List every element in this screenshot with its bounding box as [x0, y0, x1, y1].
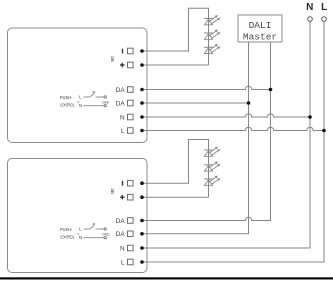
wire box1 SEC+ from LED string 1: [142, 64, 209, 66]
switch S1 push-button contact: [90, 94, 94, 97]
label box2 SEC- (minus, rotated): [122, 181, 124, 186]
switch S2 L lead wire: [84, 228, 90, 230]
junction dot box1 L / L trunk: [322, 129, 326, 133]
junction dot box1 L: [140, 129, 144, 133]
svg-text:N: N: [79, 235, 82, 240]
svg-text:N: N: [120, 114, 125, 121]
switch S2 DALI lead wire: [96, 228, 104, 230]
wire box1 DA1 to DALI bus B (hop over bus A): [142, 86, 271, 89]
switch S1 N terminal circle: [104, 105, 106, 107]
junction dot box1 N / N trunk: [308, 115, 312, 119]
wire N trunk (mains neutral bus): [142, 21, 310, 248]
svg-text:PUSH-: PUSH-: [60, 227, 73, 232]
svg-text:DA: DA: [116, 100, 126, 107]
svg-text:DA: DA: [116, 231, 126, 238]
terminal square box1 SEC-: [128, 48, 134, 54]
terminal square box1 N: [128, 114, 134, 120]
switch S2 push-button contact: [90, 226, 94, 229]
wire box2 SEC+ from LED string 2: [142, 196, 209, 198]
DALI master U1 (box): [238, 15, 282, 42]
switch S2 N lead wire: [84, 237, 104, 239]
junction dot box1 SEC-: [140, 49, 144, 53]
LED D1: [204, 18, 213, 20]
svg-text:L: L: [121, 128, 125, 135]
terminal square box2 SEC-: [128, 180, 134, 186]
switch S1 DALI terminal circle: [104, 96, 106, 98]
svg-text:SEC: SEC: [109, 188, 114, 194]
wire L trunk (mains line bus): [142, 21, 324, 262]
junction dot box1 DA2: [140, 101, 144, 105]
wire LED string 1 spine: [208, 19, 210, 66]
footer rule (page separator): [0, 277, 333, 279]
switch S1 N lead wire: [84, 105, 104, 107]
wire box1 DA2 to DALI bus A: [142, 102, 249, 104]
svg-text:L: L: [321, 2, 327, 13]
svg-text:N: N: [120, 245, 125, 252]
svg-text:DALI: DALI: [249, 20, 272, 31]
terminal square box2 N: [128, 245, 134, 251]
wire LED string 2 spine: [208, 150, 210, 197]
driver box 1 (enclosure): [8, 28, 148, 143]
svg-text:DALI: DALI: [103, 232, 110, 236]
LED D4: [204, 149, 213, 151]
terminal square box1 DA2: [128, 100, 134, 106]
driver box 2 (enclosure): [8, 159, 148, 273]
svg-text:L: L: [121, 259, 125, 266]
wire DALI bus A (left pin of U1): [142, 42, 249, 234]
wire DALI bus B (right pin of U1): [142, 42, 271, 221]
LED D5: [204, 164, 213, 166]
switch S1 L lead wire: [84, 96, 90, 98]
wire box1 SEC- to LED string 1: [142, 8, 209, 51]
svg-text:CONTROL: CONTROL: [60, 102, 75, 107]
junction dot box1 SEC+: [140, 63, 144, 67]
junction dot box2 DA2: [140, 232, 144, 236]
svg-text:SEC: SEC: [109, 56, 114, 62]
switch S2 N terminal circle: [104, 237, 106, 239]
terminal square box1 L: [128, 128, 134, 134]
junction dot box2 SEC-: [140, 181, 144, 185]
svg-text:DA: DA: [116, 87, 126, 94]
svg-text:PUSH-: PUSH-: [60, 95, 73, 100]
svg-text:DA: DA: [116, 218, 126, 225]
junction dot box1 DA1 / bus B: [269, 88, 273, 92]
LED D3: [204, 46, 213, 48]
wire box1 N to N trunk (hops over DALI buses): [142, 114, 310, 117]
terminal square box1 DA1: [128, 87, 134, 93]
label box2 SEC+ (plus): [120, 195, 124, 199]
terminal square box1 SEC+: [128, 62, 134, 68]
junction dot box1 DA2 / bus A: [247, 101, 251, 105]
switch S2 DALI terminal circle: [104, 228, 106, 230]
label box1 SEC+ (plus): [120, 63, 124, 67]
junction dot box1 N: [140, 115, 144, 119]
terminal circle L supply: [322, 17, 327, 22]
svg-text:DALI: DALI: [103, 100, 110, 104]
svg-text:N: N: [306, 2, 313, 13]
switch S1 DALI lead wire: [96, 96, 104, 98]
terminal square box2 DA1: [128, 218, 134, 224]
svg-text:N: N: [79, 103, 82, 108]
wire box2 SEC- to LED string 2: [142, 140, 209, 184]
terminal square box2 L: [128, 259, 134, 265]
terminal square box2 DA2: [128, 231, 134, 237]
label box1 SEC- (minus, rotated): [122, 49, 124, 54]
junction dot box2 L: [140, 260, 144, 264]
junction dot box2 SEC+: [140, 195, 144, 199]
wire box1 L to L trunk (hops over buses and N trunk): [142, 127, 324, 130]
svg-text:Master: Master: [243, 32, 277, 43]
LED D6: [204, 178, 213, 180]
junction dot box1 DA1: [140, 88, 144, 92]
svg-text:CONTROL: CONTROL: [60, 234, 75, 239]
LED D2: [204, 32, 213, 34]
terminal circle N supply: [308, 17, 313, 22]
junction dot box2 DA1: [140, 219, 144, 223]
junction dot box2 N: [140, 246, 144, 250]
terminal square box2 SEC+: [128, 194, 134, 200]
